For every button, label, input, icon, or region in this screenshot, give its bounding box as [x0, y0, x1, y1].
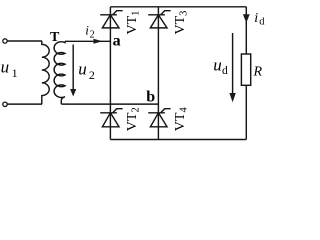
thyristor VT1: [100, 11, 122, 28]
arrowhead u2: [70, 89, 76, 97]
svg-text:u: u: [78, 59, 87, 78]
arrowhead ud: [229, 93, 235, 102]
svg-text:u: u: [213, 55, 222, 74]
svg-text:u: u: [1, 57, 10, 76]
wire primary top: [7, 40, 42, 42]
svg-text:2: 2: [90, 29, 95, 40]
thyristor VT4: [148, 109, 170, 127]
wire bridge right branch: [157, 7, 159, 140]
arrowhead id: [243, 14, 250, 23]
transformer T primary winding: [42, 41, 49, 104]
svg-text:i: i: [254, 11, 258, 26]
svg-text:R: R: [253, 65, 263, 80]
svg-text:T: T: [50, 30, 60, 45]
svg-text:VT4: VT4: [173, 107, 190, 132]
wire top rail: [110, 6, 246, 8]
wire node a (secondary top to bridge): [65, 40, 110, 42]
svg-text:i: i: [85, 23, 89, 38]
thyristor VT3: [148, 11, 170, 28]
arrowhead i2: [94, 39, 103, 44]
svg-text:VT1: VT1: [125, 11, 142, 35]
terminal bottom-left: [3, 102, 7, 106]
transformer T secondary winding: [54, 41, 65, 104]
wire node b (secondary bottom to bridge): [61, 103, 158, 105]
svg-text:d: d: [222, 65, 228, 77]
svg-text:b: b: [146, 89, 155, 106]
wire bridge left branch: [109, 7, 111, 140]
thyristor VT2: [100, 109, 122, 127]
resistor R: [241, 54, 250, 85]
svg-text:2: 2: [89, 68, 95, 82]
wire bottom rail: [110, 139, 246, 141]
wire load right side: [245, 7, 247, 140]
svg-text:VT3: VT3: [173, 11, 190, 35]
svg-text:d: d: [259, 16, 265, 27]
svg-text:VT2: VT2: [125, 107, 142, 131]
terminal top-left: [3, 39, 7, 43]
svg-text:1: 1: [12, 66, 18, 80]
wire primary bottom: [7, 103, 42, 105]
svg-text:a: a: [113, 33, 121, 50]
arrow shaft ud: [232, 33, 234, 94]
arrow shaft u2: [72, 45, 74, 90]
